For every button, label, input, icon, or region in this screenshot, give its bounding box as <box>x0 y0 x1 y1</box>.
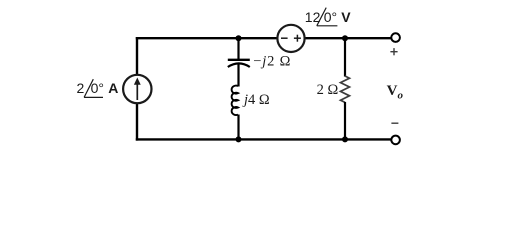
svg-text:A: A <box>108 80 118 96</box>
node junction bottom middle <box>236 136 242 142</box>
node junction top right <box>342 35 348 41</box>
label 2∠0° A <box>77 79 119 97</box>
current source I1 circle <box>123 75 151 103</box>
label 12∠0° V <box>305 8 351 26</box>
node junction bottom right <box>342 136 348 142</box>
wire left branch <box>136 37 138 141</box>
wire capacitor to inductor <box>237 64 239 87</box>
node junction top middle <box>236 35 242 41</box>
capacitor C plate bottom curved <box>228 63 250 67</box>
capacitor C plate top <box>228 59 250 61</box>
wire bottom rail <box>136 138 392 140</box>
voltage source V1 circle <box>277 25 304 52</box>
wire right branch lower <box>344 102 346 141</box>
resistor R 2Ω zigzag <box>341 76 350 102</box>
wire middle branch upper <box>237 38 239 60</box>
svg-text:j4 Ω: j4 Ω <box>242 92 270 108</box>
svg-text:−j2 Ω: −j2 Ω <box>253 53 291 69</box>
wire top rail <box>136 37 392 39</box>
current source I1 arrow <box>134 78 141 101</box>
wire middle branch lower <box>237 115 239 141</box>
label + output polarity <box>390 48 397 55</box>
label − output polarity <box>391 122 398 124</box>
svg-text:Vo: Vo <box>387 83 404 101</box>
voltage source V1 plus sign <box>294 35 301 42</box>
wire right branch upper <box>344 38 346 77</box>
svg-text:V: V <box>341 9 351 25</box>
voltage source V1 minus sign <box>281 37 288 39</box>
svg-text:0°: 0° <box>324 9 337 25</box>
inductor L coil <box>232 86 238 115</box>
terminal bottom circle <box>391 136 400 145</box>
svg-text:2: 2 <box>77 80 85 96</box>
svg-text:2 Ω: 2 Ω <box>317 82 339 98</box>
terminal top circle <box>391 33 400 42</box>
svg-text:0°: 0° <box>91 80 104 96</box>
